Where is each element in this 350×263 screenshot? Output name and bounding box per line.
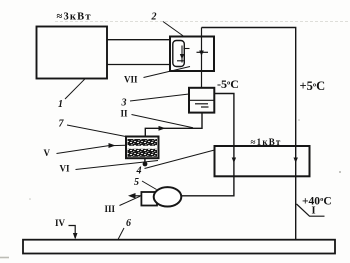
- svg-text:4: 4: [136, 166, 142, 177]
- evaporator box: [126, 137, 159, 159]
- leader line to VI: [76, 161, 159, 170]
- leader line to III: [120, 196, 141, 205]
- svg-text:-5οC: -5οC: [217, 77, 239, 91]
- motor box 1: [37, 27, 108, 79]
- svg-text:+40οC: +40οC: [302, 196, 332, 208]
- scan speck: [298, 119, 300, 121]
- separator box (-5°C): [189, 88, 214, 113]
- condensate pump body: [154, 187, 182, 206]
- svg-text:7: 7: [59, 119, 65, 130]
- leader line to I: [297, 204, 325, 216]
- evaporator drain stub with drop: [144, 158, 146, 162]
- leader line to 7: [67, 125, 127, 137]
- svg-text:V: V: [44, 148, 51, 158]
- svg-text:≈3кВт: ≈3кВт: [57, 12, 92, 23]
- svg-text:II: II: [121, 109, 129, 119]
- svg-text:VII: VII: [124, 75, 138, 85]
- leader line to 2: [163, 22, 184, 37]
- compressor unit 2 outer body: [170, 37, 214, 72]
- leader line to VII: [144, 67, 191, 78]
- leader line to 3: [130, 94, 189, 101]
- scan artifact bottom-left: [0, 257, 9, 259]
- separator liquid level line: [189, 99, 214, 101]
- outlet arrow left of pump: [130, 195, 141, 197]
- compressor inner cylinder: [173, 41, 185, 67]
- scan speck: [29, 198, 31, 200]
- discharge pipe through compressor with arrow: [197, 28, 209, 88]
- leader arrow IV down to floor: [69, 226, 76, 239]
- svg-text:6: 6: [126, 218, 131, 229]
- faint top scan line: [55, 21, 350, 23]
- leader arrow V into evaporator: [57, 145, 127, 153]
- radiator box 1kW: [215, 146, 310, 176]
- svg-text:VI: VI: [60, 164, 70, 174]
- flow arrow in radiator right pipe: [294, 158, 298, 164]
- evaporator frost band lower: [128, 149, 158, 157]
- svg-text:+5οC: +5οC: [300, 79, 326, 93]
- svg-text:1: 1: [58, 99, 63, 110]
- leader line to 6: [118, 228, 124, 240]
- leader line to II: [132, 115, 194, 128]
- flow arrow in radiator left pipe: [232, 158, 236, 164]
- wire motor to compressor upper: [107, 39, 171, 41]
- wire separator to liquid line down-right: [181, 94, 234, 196]
- svg-text:2: 2: [151, 12, 157, 23]
- svg-text:5: 5: [134, 177, 139, 188]
- svg-text:IV: IV: [55, 218, 66, 228]
- floor bar 6: [23, 240, 335, 254]
- svg-text:I: I: [312, 206, 316, 217]
- scan speck: [339, 171, 341, 173]
- wire motor to compressor lower: [107, 64, 171, 66]
- condensate pump flange: [141, 192, 157, 206]
- svg-text:3: 3: [121, 98, 127, 109]
- suction pipe evaporator to separator with arrow: [145, 113, 202, 137]
- leader line to 5: [142, 181, 157, 190]
- svg-text:III: III: [105, 204, 116, 214]
- top loop wire: [202, 28, 296, 241]
- separator level dashes: [195, 103, 208, 105]
- leader line to 4: [145, 150, 215, 169]
- evaporator frost band upper: [128, 139, 158, 146]
- pipe with arrow inside cylinder: [177, 46, 190, 63]
- leader line to 1: [65, 79, 85, 99]
